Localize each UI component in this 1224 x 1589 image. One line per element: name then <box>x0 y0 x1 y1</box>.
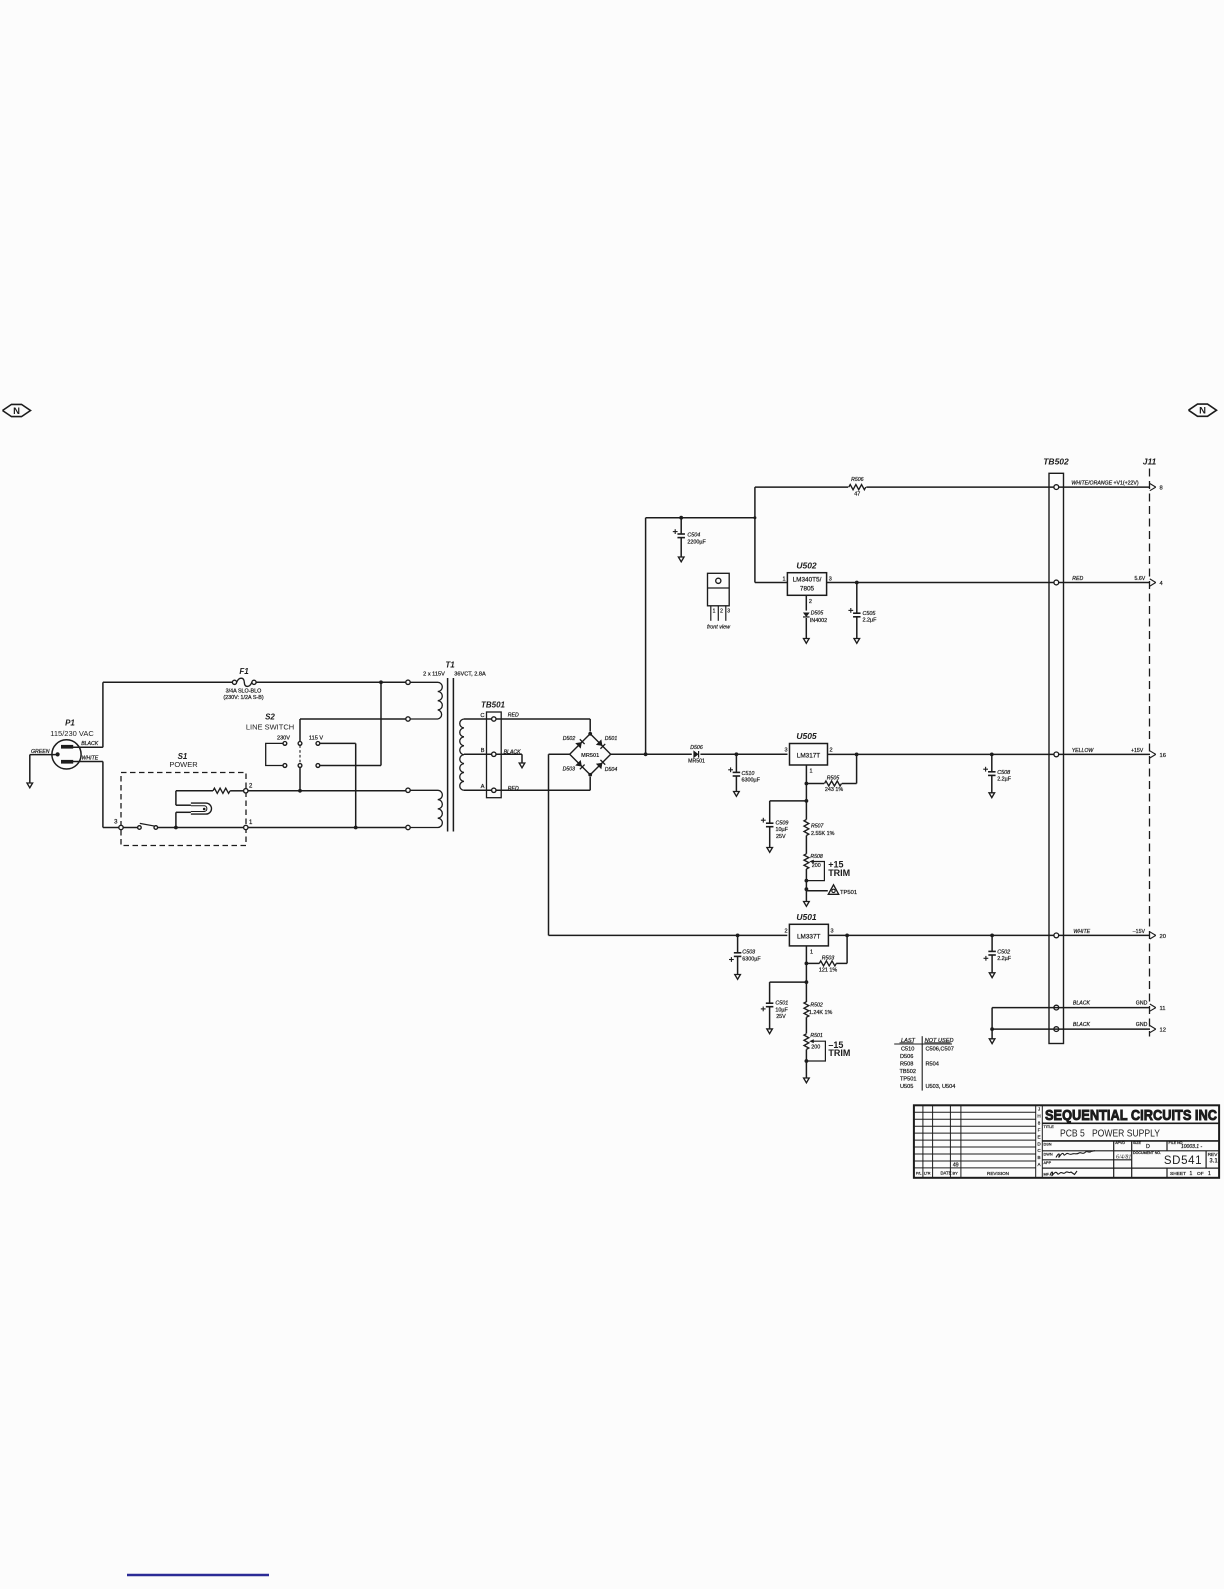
wire fuse to T1 primary 1 top <box>256 681 406 683</box>
switch S1 contacts <box>123 823 157 829</box>
svg-text:1: 1 <box>1208 1171 1211 1177</box>
svg-text:RED: RED <box>1072 576 1083 582</box>
blue underline mark <box>127 1574 269 1576</box>
svg-text:230V: 230V <box>277 735 290 741</box>
transformer T1 core <box>448 678 454 832</box>
svg-text:WHITE: WHITE <box>82 756 99 762</box>
svg-text:D506: D506 <box>690 745 703 751</box>
svg-text:TP501: TP501 <box>900 1076 916 1082</box>
package drawing (front view) <box>707 573 731 630</box>
wire GND row5 <box>992 1008 1150 1030</box>
svg-text:C503: C503 <box>742 949 755 955</box>
test point TP501 <box>806 885 857 896</box>
label MR501 (D506) <box>688 759 705 765</box>
wire +22V rail <box>755 486 1150 488</box>
svg-text:11: 11 <box>1160 1006 1166 1012</box>
svg-text:RED: RED <box>508 712 519 718</box>
resistor R502 <box>804 982 832 1033</box>
svg-text:1.24K 1%: 1.24K 1% <box>809 1010 833 1016</box>
svg-text:3.1: 3.1 <box>1209 1158 1218 1164</box>
svg-text:TP501: TP501 <box>840 890 857 896</box>
resistor R506 <box>849 477 866 497</box>
svg-text:D506: D506 <box>900 1054 913 1060</box>
label D503 <box>563 767 576 773</box>
field date <box>1116 1153 1131 1160</box>
svg-text:RED: RED <box>508 786 519 792</box>
diode D502 <box>575 739 585 749</box>
svg-text:3: 3 <box>785 748 788 754</box>
svg-text:115/230 VAC: 115/230 VAC <box>50 729 94 738</box>
terminal S1-3 <box>114 820 123 830</box>
pin J11-16 <box>1150 751 1166 759</box>
svg-text:B: B <box>1037 1155 1040 1160</box>
transformer T1 primary winding 2 <box>406 788 443 830</box>
bridge rectifier MR501 outline <box>570 732 611 777</box>
svg-text:N: N <box>1199 406 1206 417</box>
svg-text:C506,C507: C506,C507 <box>926 1047 954 1053</box>
label D506 <box>690 745 703 751</box>
wire U501 adj node <box>805 946 809 984</box>
svg-text:2: 2 <box>830 748 833 754</box>
svg-text:C509: C509 <box>776 820 789 826</box>
revision entry 49 <box>953 1163 959 1169</box>
wire U505 adj node <box>805 765 809 803</box>
trimmer wiper R501 <box>806 1039 825 1061</box>
pin 2 label U501 <box>784 928 787 934</box>
svg-text:BLACK: BLACK <box>1073 1000 1091 1006</box>
field sheet <box>1170 1171 1211 1177</box>
resistor R507 <box>804 801 835 854</box>
svg-text:TB501: TB501 <box>481 701 506 710</box>
wire S2 common bottom to primary rail <box>298 767 302 792</box>
wire S1 terminal 1 to T1 <box>248 827 406 829</box>
field document no SD541 <box>1133 1151 1202 1167</box>
svg-text:GND: GND <box>1136 1000 1148 1006</box>
field size D <box>1133 1141 1150 1150</box>
svg-text:J: J <box>1038 1106 1040 1111</box>
svg-text:3: 3 <box>831 928 834 934</box>
wire S1 pole to terminal 1 <box>158 827 244 829</box>
svg-text:A: A <box>481 784 485 790</box>
wire U505 output +15V rail <box>828 753 1151 757</box>
capacitor C501 <box>761 982 807 1034</box>
pin 2 label U502 <box>809 599 812 605</box>
svg-text:B: B <box>481 748 485 754</box>
svg-text:T1: T1 <box>445 661 455 670</box>
svg-text:LTR: LTR <box>924 1172 931 1176</box>
svg-text:2.2µF: 2.2µF <box>997 776 1012 782</box>
svg-text:3: 3 <box>829 577 832 583</box>
svg-text:R506: R506 <box>851 477 864 483</box>
svg-text:–15V: –15V <box>1133 929 1146 935</box>
label D501 <box>605 736 618 742</box>
svg-text:R503: R503 <box>822 955 835 961</box>
pin 1 label U505 <box>810 769 813 775</box>
label -15 TRIM <box>828 1040 850 1058</box>
svg-text:49: 49 <box>953 1163 959 1169</box>
field file no <box>1169 1141 1203 1150</box>
wire TB501-C to bridge <box>496 719 590 732</box>
svg-text:6300µF: 6300µF <box>742 777 761 783</box>
svg-text:TB502: TB502 <box>900 1069 916 1075</box>
wire S2 115V top to neutral rail <box>320 743 358 829</box>
terminal TB502 row5 <box>1054 1005 1059 1010</box>
svg-text:200: 200 <box>812 863 821 869</box>
svg-text:POWER: POWER <box>169 760 198 769</box>
svg-text:R501: R501 <box>810 1033 823 1039</box>
transformer T1 labels <box>423 661 486 678</box>
wire S2 115V bottom to hot rail <box>320 680 383 765</box>
svg-text:C504: C504 <box>687 532 700 538</box>
title block outer border <box>914 1105 1219 1178</box>
label fuse rating <box>223 689 263 702</box>
svg-text:BLACK: BLACK <box>1073 1022 1091 1028</box>
svg-text:+15V: +15V <box>1131 748 1144 754</box>
diode D505 <box>803 595 827 643</box>
label BLACK <box>81 741 99 747</box>
terminal TB501-C <box>480 713 496 721</box>
svg-text:SD541: SD541 <box>1164 1155 1202 1167</box>
wire U501 output -15V rail <box>828 934 1150 938</box>
svg-text:TRIM: TRIM <box>828 1048 850 1058</box>
svg-text:2200µF: 2200µF <box>687 540 706 546</box>
svg-text:C505: C505 <box>863 611 877 617</box>
svg-text:U505: U505 <box>900 1084 913 1090</box>
svg-text:front view: front view <box>707 624 731 630</box>
svg-text:APP: APP <box>1044 1161 1052 1165</box>
transformer T1 primary winding 1 <box>406 680 443 721</box>
svg-text:R504: R504 <box>926 1062 939 1068</box>
svg-text:47: 47 <box>854 491 860 497</box>
regulator U505 <box>790 731 828 765</box>
svg-text:12: 12 <box>1160 1028 1166 1034</box>
wire bridge positive rail <box>611 752 788 756</box>
svg-text:REV: REV <box>1208 1152 1219 1158</box>
svg-text:SHEET: SHEET <box>1170 1171 1186 1177</box>
title block row lines <box>1042 1151 1219 1168</box>
svg-text:LM337T: LM337T <box>797 933 821 940</box>
junction lamp branch <box>174 826 178 830</box>
svg-text:REVISION: REVISION <box>987 1171 1009 1176</box>
label BLACK GND (11) <box>1073 1000 1148 1006</box>
terminal S1-2 <box>244 784 253 794</box>
resistor R508 (+15 trim pot) <box>804 854 823 869</box>
wire S2 common top to T1 primary 1 bottom <box>300 719 406 742</box>
pin J11-12 <box>1150 1026 1166 1034</box>
capacitor C502 <box>984 935 1012 977</box>
terminal TB502 row6 <box>1054 1027 1059 1032</box>
terminal TB502 row1 <box>1054 485 1059 490</box>
svg-text:2.2µF: 2.2µF <box>863 618 878 624</box>
svg-text:P1: P1 <box>65 719 75 728</box>
svg-text:2.55K 1%: 2.55K 1% <box>811 831 835 837</box>
svg-text:MF: MF <box>1044 1172 1050 1176</box>
svg-text:1: 1 <box>810 950 813 956</box>
wire U502 output 5.6V rail <box>827 581 1150 585</box>
resistor R501 (-15 trim pot) <box>804 1033 823 1050</box>
terminal block TB502 <box>1043 457 1069 1044</box>
svg-text:1: 1 <box>782 577 785 583</box>
label GREEN <box>31 749 50 755</box>
svg-text:16: 16 <box>1160 753 1166 759</box>
terminal S1-1 <box>244 820 253 830</box>
switch S2 230V shorting bar <box>266 743 283 765</box>
terminal TB502 row3 <box>1054 752 1059 757</box>
svg-text:7805: 7805 <box>800 586 815 593</box>
capacitor C505 <box>848 583 877 644</box>
terminal TB502 row2 <box>1054 580 1059 585</box>
svg-text:8: 8 <box>1160 486 1163 492</box>
wire R508 bottom node <box>805 869 809 902</box>
svg-text:C502: C502 <box>997 949 1010 955</box>
svg-text:36VCT, 2.8A: 36VCT, 2.8A <box>454 671 486 677</box>
svg-text:OF: OF <box>1197 1171 1204 1177</box>
pin 3 label U502 <box>829 577 832 583</box>
capacitor C508 <box>983 754 1012 797</box>
wire bridge negative rail <box>549 754 788 935</box>
resistor R505 <box>806 754 856 792</box>
trimmer wiper R508 <box>806 860 824 881</box>
svg-text:U503, U504: U503, U504 <box>926 1084 956 1090</box>
svg-text:TB502: TB502 <box>1043 457 1069 467</box>
svg-text:6300µF: 6300µF <box>742 957 761 963</box>
svg-text:S2: S2 <box>265 713 275 722</box>
svg-text:8: 8 <box>1038 1120 1041 1125</box>
resistor R (lamp ballast) <box>176 788 244 793</box>
svg-text:+V1(+22V): +V1(+22V) <box>1114 481 1139 487</box>
label BLACK (B) <box>504 749 522 755</box>
svg-text:GND: GND <box>1136 1022 1148 1028</box>
svg-text:MR501: MR501 <box>581 753 599 759</box>
svg-text:(230V: 1/2A S-B): (230V: 1/2A S-B) <box>223 695 263 701</box>
connector J11 (dashed) <box>1143 457 1157 1037</box>
svg-text:243 1%: 243 1% <box>825 787 843 793</box>
svg-text:F1: F1 <box>239 667 249 676</box>
svg-text:2: 2 <box>784 928 787 934</box>
svg-text:C: C <box>480 713 484 719</box>
capacitor C503 <box>729 934 761 980</box>
svg-text:R507: R507 <box>811 823 825 829</box>
svg-text:D: D <box>1146 1144 1150 1150</box>
terminal TB501-B <box>481 748 496 756</box>
svg-text:U501: U501 <box>796 912 817 922</box>
wire S1 terminal 2 to T1 <box>248 790 406 792</box>
neon lamp DS1 <box>176 791 212 828</box>
capacitor C504 <box>673 516 707 562</box>
wire GND row6 <box>989 1027 1150 1043</box>
svg-text:D503: D503 <box>563 767 576 773</box>
switch S2 labels <box>246 713 324 742</box>
svg-text:D505: D505 <box>811 611 824 617</box>
wire green with arrow <box>27 755 58 788</box>
diode D506 <box>693 750 698 758</box>
svg-text:R502: R502 <box>810 1003 823 1009</box>
field DWG + signature <box>1044 1151 1096 1158</box>
pin J11-11 <box>1150 1004 1166 1012</box>
field approval signature <box>1044 1171 1078 1176</box>
svg-text:3/4A SLO-BLO: 3/4A SLO-BLO <box>226 689 262 695</box>
switch S1 enclosure (dashed) <box>121 752 246 846</box>
terminal block TB501 <box>481 701 506 798</box>
label YELLOW +15V <box>1072 748 1144 754</box>
transformer T1 secondary winding <box>460 719 492 790</box>
svg-text:DWN: DWN <box>1044 1153 1053 1157</box>
label D504 <box>605 767 618 773</box>
revision marker N (right) <box>1189 404 1217 416</box>
svg-text:10µF: 10µF <box>775 1007 788 1013</box>
logo SEQUENTIAL CIRCUITS INC <box>1042 1108 1219 1124</box>
zone letter column <box>1037 1105 1042 1178</box>
svg-text:5.6V: 5.6V <box>1135 576 1146 582</box>
svg-text:APVD: APVD <box>1115 1141 1125 1145</box>
svg-text:P/L: P/L <box>916 1172 921 1176</box>
svg-text:200: 200 <box>811 1044 820 1050</box>
label D502 <box>563 736 576 742</box>
pin J11-4 <box>1150 579 1164 587</box>
svg-text:1: 1 <box>810 769 813 775</box>
connector P1 (115/230 VAC plug) <box>50 719 94 770</box>
label RED (C) <box>508 712 519 718</box>
svg-text:R508: R508 <box>900 1062 913 1068</box>
svg-text:25V: 25V <box>776 1014 786 1020</box>
svg-text:10003.1 -: 10003.1 - <box>1181 1144 1202 1150</box>
svg-text:LINE SWITCH: LINE SWITCH <box>246 723 294 732</box>
diode D503 <box>575 760 585 770</box>
regulator U502 <box>787 561 826 596</box>
svg-text:DSN: DSN <box>1044 1142 1052 1146</box>
label WHITE/ORANGE +V1(+22V) <box>1071 481 1138 487</box>
svg-text:6/4/81: 6/4/81 <box>1116 1153 1131 1160</box>
wire TB501-B to ground <box>496 754 525 768</box>
title block column lines <box>1114 1141 1206 1178</box>
svg-text:121 1%: 121 1% <box>819 968 837 974</box>
wire TB501-A to bridge <box>496 777 590 790</box>
svg-text:MR501: MR501 <box>688 759 705 765</box>
svg-text:PCB 5 POWER SUPPLY: PCB 5 POWER SUPPLY <box>1060 1128 1160 1140</box>
svg-text:D501: D501 <box>605 736 618 742</box>
svg-text:R508: R508 <box>810 854 823 860</box>
svg-text:1: 1 <box>713 609 716 615</box>
svg-text:F: F <box>1038 1127 1041 1132</box>
diode D501 <box>596 739 606 749</box>
wire black (hot) <box>73 682 103 747</box>
field REV 3.1 <box>1208 1152 1219 1164</box>
svg-text:TITLE: TITLE <box>1044 1125 1055 1129</box>
terminal TB501-A <box>481 784 496 792</box>
svg-text:2 x 115V: 2 x 115V <box>423 671 445 677</box>
svg-text:U505: U505 <box>796 731 817 741</box>
table LAST/NOT USED <box>894 1036 955 1090</box>
svg-text:LM340T5/: LM340T5/ <box>793 577 822 584</box>
svg-text:U502: U502 <box>796 561 817 571</box>
svg-text:H: H <box>1037 1113 1040 1118</box>
label RED 5.6V <box>1072 576 1145 582</box>
field APP <box>1044 1161 1052 1165</box>
svg-text:1: 1 <box>1190 1171 1193 1177</box>
revision table footer labels <box>916 1171 1009 1176</box>
svg-text:20: 20 <box>1160 934 1166 940</box>
pin 1 label U501 <box>810 950 813 956</box>
svg-text:C501: C501 <box>775 1001 788 1007</box>
svg-text:SEQUENTIAL CIRCUITS INC: SEQUENTIAL CIRCUITS INC <box>1045 1108 1217 1124</box>
svg-text:E: E <box>1037 1134 1040 1139</box>
label +15 TRIM <box>828 860 850 878</box>
switch S2 actuator (dashed) <box>299 745 301 763</box>
svg-text:BY: BY <box>953 1171 959 1176</box>
wire AC hot rail to fuse <box>103 681 232 683</box>
svg-text:C510: C510 <box>901 1047 914 1053</box>
label WHITE <box>82 756 99 762</box>
regulator U501 <box>789 912 828 946</box>
svg-text:YELLOW: YELLOW <box>1072 748 1095 754</box>
terminal TB502 row4 <box>1054 933 1059 938</box>
label WHITE -15V <box>1073 929 1145 935</box>
svg-text:10µF: 10µF <box>776 827 789 833</box>
field DSN <box>1044 1142 1052 1146</box>
revision marker N (left) <box>3 404 31 416</box>
title PCB 5 POWER SUPPLY <box>1042 1125 1219 1141</box>
pin 3 label U501 <box>831 928 834 934</box>
svg-text:WHITE/ORANGE: WHITE/ORANGE <box>1071 481 1112 487</box>
svg-text:3: 3 <box>727 609 730 615</box>
svg-text:2.2µF: 2.2µF <box>997 956 1012 962</box>
svg-text:WHITE: WHITE <box>1073 929 1090 935</box>
svg-text:BLACK: BLACK <box>81 741 99 747</box>
resistor R503 <box>806 935 847 973</box>
pin 1 label U502 <box>782 577 785 583</box>
svg-text:D504: D504 <box>605 767 618 773</box>
switch S2 posts <box>283 742 320 768</box>
pin J11-20 <box>1150 932 1166 940</box>
ground (R508) <box>804 902 810 907</box>
svg-text:C510: C510 <box>742 771 755 777</box>
svg-text:DOCUMENT NO.: DOCUMENT NO. <box>1133 1151 1161 1155</box>
svg-text:25V: 25V <box>776 834 786 840</box>
svg-text:SIZE: SIZE <box>1133 1141 1142 1145</box>
wire riser to C504 node <box>646 516 757 754</box>
diode D504 <box>596 760 606 770</box>
svg-text:J11: J11 <box>1143 457 1157 467</box>
svg-text:D502: D502 <box>563 736 576 742</box>
wire white (neutral) <box>73 762 119 828</box>
svg-text:R505: R505 <box>827 775 840 781</box>
svg-text:LM317T: LM317T <box>797 752 821 759</box>
svg-text:C508: C508 <box>997 770 1010 776</box>
pin J11-8 <box>1150 484 1163 492</box>
label BLACK GND (12) <box>1073 1022 1148 1028</box>
capacitor C510 <box>728 754 760 796</box>
wire R501 bottom to ground <box>804 1049 810 1082</box>
fuse F1 <box>232 667 256 686</box>
field APVD <box>1115 1141 1125 1145</box>
capacitor C509 <box>761 801 807 852</box>
svg-text:N: N <box>13 406 20 417</box>
pin 2 label U505 <box>830 748 833 754</box>
svg-text:2: 2 <box>809 599 812 605</box>
wire riser to +22 rail / U502 input <box>755 487 788 582</box>
svg-text:2: 2 <box>720 609 723 615</box>
svg-text:115 V: 115 V <box>309 735 323 741</box>
pin 3 label U505 <box>785 748 788 754</box>
svg-text:DATE: DATE <box>941 1171 952 1176</box>
revision table grid <box>914 1105 1036 1178</box>
svg-text:TRIM: TRIM <box>828 868 850 878</box>
svg-text:IN4002: IN4002 <box>810 618 827 624</box>
label RED (A) <box>508 786 519 792</box>
